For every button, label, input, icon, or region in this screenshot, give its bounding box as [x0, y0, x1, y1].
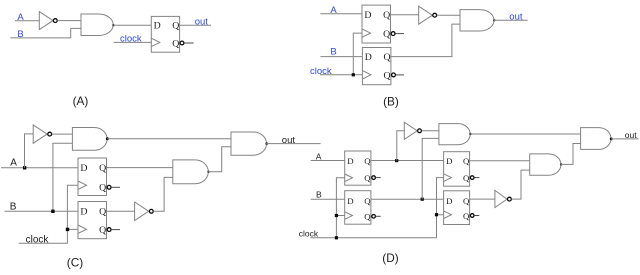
wire top FF Q to NOT input — [391, 14, 419, 16]
svg-text:Q: Q — [364, 173, 371, 183]
wire A to top-left flip-flop D input — [311, 160, 345, 162]
wire Q branch up to NOT input — [397, 131, 405, 161]
D flip-flop U16 (bottom-left, circuit D) — [345, 191, 376, 225]
svg-text:(B): (B) — [383, 95, 399, 109]
wire Qbar stub (top FF, circuit B) — [395, 33, 404, 35]
wire B to bottom-left flip-flop D input — [311, 198, 345, 200]
svg-text:out: out — [625, 130, 637, 140]
junction clock main (circuit D) — [335, 236, 338, 239]
svg-text:Q: Q — [364, 156, 371, 166]
wire NOT output to AND input 1 — [437, 14, 460, 16]
AND gate U13 (circuit C, middle) — [173, 160, 209, 184]
svg-text:D: D — [365, 52, 372, 63]
wire AND2 output to AND3 input 2 — [561, 144, 581, 165]
wire top-left FF Q to top-right FF D input — [371, 160, 444, 162]
svg-text:out: out — [282, 135, 296, 146]
D flip-flop U6 (bottom, circuit B) — [362, 48, 395, 85]
wire AND1 output to AND3 input 1 — [470, 133, 580, 135]
wire bottom-left FF Q to bottom-right FF D input — [371, 198, 444, 200]
wire Qbar stub (circuit A) — [184, 42, 193, 44]
wire Q branch up to AND1 input 2 — [422, 138, 439, 199]
svg-text:Q: Q — [99, 207, 106, 218]
svg-text:Q: Q — [364, 196, 371, 206]
wire top-right FF Q to AND2 input 1 — [470, 160, 530, 162]
D flip-flop U20 (bottom-right, circuit D) — [444, 191, 474, 225]
junction Q branch to AND1 (circuit D) — [421, 198, 424, 201]
junction B branch (circuit C) — [51, 210, 54, 213]
svg-text:D: D — [446, 156, 452, 166]
svg-text:D: D — [347, 196, 353, 206]
svg-text:(C): (C) — [67, 255, 83, 269]
wire AND output to flip-flop D input — [113, 24, 151, 26]
junction A branch (circuit C) — [23, 166, 26, 169]
svg-text:Q: Q — [99, 163, 106, 174]
svg-text:Q: Q — [99, 183, 106, 194]
svg-text:A: A — [17, 12, 24, 23]
svg-text:D: D — [80, 207, 87, 218]
wire Qbar stub (bottom FF, circuit C) — [111, 229, 120, 231]
junction clock (circuit B) — [352, 73, 355, 76]
wire bottom FF Q to AND input 2 — [391, 24, 460, 57]
svg-text:D: D — [364, 10, 371, 21]
svg-text:Q: Q — [172, 38, 179, 49]
wire bottom-right FF Q to NOT input — [470, 198, 495, 200]
junction clock right branch (circuit D) — [435, 213, 438, 216]
wire NOT output to AND1 input 1 — [422, 130, 439, 132]
junction AND3 output (circuit D) — [610, 138, 613, 141]
wire B to bottom flip-flop D input — [5, 210, 79, 212]
wire B to AND input 2 — [10, 28, 81, 38]
wire NOT output to AND2 input 2 — [153, 177, 172, 211]
svg-text:Q: Q — [463, 156, 470, 166]
svg-text:B: B — [330, 46, 336, 57]
wire top FF Q to AND2 input 1 — [107, 167, 173, 169]
junction AND output (circuit A) — [112, 24, 114, 26]
AND gate U9 (circuit C, top-left) — [72, 128, 107, 151]
svg-text:out: out — [195, 16, 209, 27]
svg-text:out: out — [509, 12, 523, 23]
wire Qbar stub (top FF, circuit C) — [111, 186, 120, 188]
wire clock to left flip-flop clock inputs — [310, 178, 436, 238]
junction clock branch (circuit C) — [66, 228, 69, 231]
svg-text:Q: Q — [463, 173, 470, 183]
svg-text:Q: Q — [383, 10, 390, 21]
wire bottom FF Q to NOT input — [107, 210, 135, 212]
AND gate U2 (circuit A) — [81, 14, 113, 36]
svg-text:Q: Q — [463, 211, 470, 221]
AND gate U22 (circuit D, middle) — [530, 154, 561, 175]
svg-text:B: B — [316, 190, 322, 200]
D flip-flop U19 (top-right, circuit D) — [444, 152, 474, 187]
wire AND3 output to out — [267, 143, 321, 145]
svg-text:Q: Q — [364, 212, 371, 222]
wire B branch to AND1 input 2 — [53, 143, 73, 211]
svg-text:D: D — [347, 156, 353, 166]
AND gate U18 (circuit D, top) — [439, 124, 470, 145]
inverter U5 (circuit B) — [419, 6, 437, 24]
wire Qbar stub (top-left FF, circuit D) — [376, 177, 381, 179]
wire A to top flip-flop D input — [320, 13, 362, 15]
wire clock to both flip-flop clock inputs — [320, 33, 362, 75]
wire clock to right flip-flop clock inputs — [437, 178, 444, 238]
svg-text:D: D — [154, 21, 161, 32]
junction AND2 output (circuit C) — [207, 171, 209, 173]
svg-text:A: A — [10, 158, 17, 169]
wire Qbar stub (bottom-left FF, circuit D) — [376, 215, 381, 217]
wire clock to flip-flop clock input — [114, 41, 152, 43]
svg-text:D: D — [446, 196, 452, 206]
wire NOT output to AND2 input 2 — [512, 170, 530, 199]
svg-text:Q: Q — [383, 29, 390, 40]
wire NOT output to AND1 input 1 — [52, 133, 73, 135]
AND gate U14 (circuit C, output) — [231, 132, 266, 155]
wire B to bottom flip-flop D input — [320, 56, 362, 58]
svg-text:Q: Q — [384, 70, 391, 81]
junction AND3 output (circuit C) — [265, 142, 268, 145]
AND gate U7 (circuit B) — [460, 10, 494, 31]
junction AND2 output (circuit D) — [560, 163, 562, 165]
junction AND output (circuit B) — [493, 19, 495, 21]
inverter U17 (circuit D) — [404, 122, 421, 139]
wire NOT output to AND input 1 — [57, 20, 81, 22]
wire A branch up to NOT input — [25, 134, 34, 168]
inverter U12 (circuit C) — [135, 202, 154, 221]
svg-text:Q: Q — [463, 196, 470, 206]
D flip-flop U4 (top, circuit B) — [362, 5, 395, 43]
wire Q output to out — [180, 24, 211, 26]
svg-text:D: D — [80, 163, 87, 174]
wire AND3 output to out — [611, 138, 639, 140]
inverter U21 (circuit D) — [495, 190, 511, 207]
wire clock to both flip-flop clock inputs — [19, 185, 78, 243]
inverter U1 (NOT gate, circuit A) — [39, 12, 57, 30]
wire Qbar stub (top-right FF, circuit D) — [474, 177, 479, 179]
svg-text:(A): (A) — [73, 94, 89, 108]
wire A to top flip-flop D input — [1, 167, 78, 169]
svg-text:(D): (D) — [382, 251, 398, 265]
D flip-flop U10 (top, circuit C) — [78, 158, 111, 196]
junction Q branch to NOT (circuit D) — [395, 159, 398, 162]
wire AND1 output to AND3 input 1 — [107, 138, 231, 140]
D flip-flop U11 (bottom, circuit C) — [78, 202, 111, 239]
D flip-flop U3 (circuit A) — [151, 16, 184, 52]
svg-text:Q: Q — [99, 225, 106, 236]
junction clock left branch (circuit D) — [335, 214, 338, 217]
wire Qbar stub (bottom-right FF, circuit D) — [474, 215, 479, 217]
svg-text:clock: clock — [299, 229, 319, 239]
svg-text:clock: clock — [120, 34, 142, 45]
svg-text:Q: Q — [172, 21, 179, 32]
wire A to NOT input — [15, 20, 39, 22]
junction AND1 output (circuit C) — [106, 137, 109, 140]
inverter U8 (circuit C) — [33, 125, 51, 143]
svg-text:Q: Q — [384, 52, 391, 63]
wire AND output to out — [494, 19, 528, 21]
wire AND2 output to AND3 input 2 — [208, 147, 231, 172]
AND gate U23 (circuit D, output) — [581, 128, 611, 150]
D flip-flop U15 (top-left, circuit D) — [345, 151, 376, 185]
wire Qbar stub (bottom FF, circuit B) — [396, 74, 404, 76]
junction AND1 output (circuit D) — [469, 133, 471, 135]
